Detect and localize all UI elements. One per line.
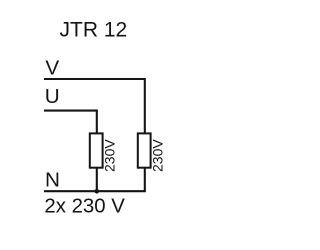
svg-text:V: V (45, 56, 59, 79)
wire N bus (44, 190, 146, 192)
wire V bus (horizontal then drop to right resistor top) (44, 79, 145, 133)
resistor left (U-N) body (90, 133, 103, 167)
svg-text:2x 230 V: 2x 230 V (44, 196, 125, 218)
svg-text:230V: 230V (150, 139, 166, 172)
resistor right (V-N) body (138, 133, 151, 167)
svg-text:230V: 230V (102, 139, 118, 172)
svg-text:N: N (45, 169, 60, 192)
wire right resistor bottom lead to N bus corner (144, 168, 146, 192)
svg-text:U: U (45, 85, 60, 108)
wire U bus (horizontal then drop to left resistor top) (44, 111, 97, 134)
junction dot on N bus (95, 189, 100, 194)
svg-text:JTR 12: JTR 12 (60, 18, 128, 41)
wire left resistor bottom lead to N bus (96, 168, 98, 192)
